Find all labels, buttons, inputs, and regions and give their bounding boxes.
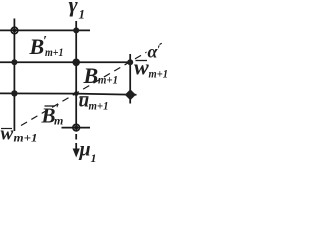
svg-text:1: 1	[79, 7, 86, 22]
svg-text:B: B	[29, 34, 45, 59]
svg-text:m+1: m+1	[14, 131, 38, 145]
svg-text:γ: γ	[69, 0, 79, 17]
svg-text:u: u	[79, 91, 90, 112]
svg-text:B: B	[83, 63, 99, 88]
svg-text:m+1: m+1	[89, 99, 109, 113]
svg-text:′: ′	[157, 42, 160, 56]
svg-text:m: m	[54, 114, 63, 128]
svg-text:μ: μ	[79, 139, 91, 161]
svg-text:1: 1	[91, 151, 97, 164]
svg-text:m+1: m+1	[45, 45, 64, 59]
svg-text:w: w	[1, 124, 14, 145]
svg-text:m+1: m+1	[149, 67, 169, 81]
svg-text:m+1: m+1	[98, 73, 118, 87]
